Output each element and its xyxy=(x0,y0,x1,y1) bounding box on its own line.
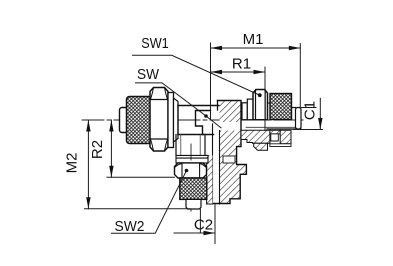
right branch port bottom line xyxy=(241,134,242,136)
knurled nut left xyxy=(127,97,153,144)
neck between hex and knurl xyxy=(268,102,271,104)
body step block xyxy=(196,111,211,135)
svg-text:C1: C1 xyxy=(301,101,318,120)
svg-text:SW2: SW2 xyxy=(115,218,145,235)
hex nut right SW1 xyxy=(253,90,268,120)
dimension C1 xyxy=(293,98,323,129)
svg-text:R1: R1 xyxy=(232,56,251,73)
cone left xyxy=(174,98,179,142)
body left port outline xyxy=(178,105,241,107)
centerline vertical axis (bottom branch) xyxy=(190,144,192,213)
svg-text:SW1: SW1 xyxy=(141,35,169,52)
knurled nut bottom xyxy=(180,178,207,199)
washer left xyxy=(168,93,174,148)
dimension M1 xyxy=(211,43,301,120)
svg-text:M1: M1 xyxy=(243,31,264,48)
svg-text:R2: R2 xyxy=(89,140,106,159)
bottom branch section hatch column xyxy=(207,155,213,204)
stud bottom edge xyxy=(267,128,301,130)
dimension M2 xyxy=(85,120,191,209)
wall seat notch xyxy=(223,156,235,163)
dimension C2 xyxy=(174,204,215,244)
svg-text:C2: C2 xyxy=(194,217,213,234)
stud top step xyxy=(292,107,296,109)
hex nut bottom SW2 xyxy=(175,163,207,178)
dimension R1 xyxy=(211,67,266,131)
stud end cap right xyxy=(296,108,302,130)
centerline horizontal axis xyxy=(82,119,305,121)
bottom branch washers xyxy=(176,155,208,163)
svg-text:SW: SW xyxy=(137,66,160,83)
body neck xyxy=(176,135,205,156)
dimension R2 xyxy=(107,120,175,177)
thread root line xyxy=(246,126,296,128)
tube stub left xyxy=(120,108,129,133)
svg-text:M2: M2 xyxy=(63,153,80,174)
knurled ring right (upper half, outside view) xyxy=(270,94,292,120)
body wall hatched xyxy=(213,101,247,205)
stud end bottom xyxy=(186,199,201,209)
washer right xyxy=(242,103,247,120)
hex nut left SW xyxy=(150,88,168,152)
right branch lower section xyxy=(241,130,291,150)
